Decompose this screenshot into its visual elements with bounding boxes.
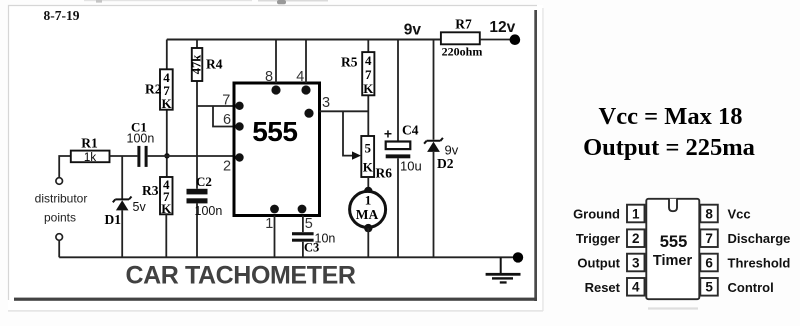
DIP pin 5 box (700, 278, 718, 296)
wire: D1 column (121, 156, 123, 257)
node 12v supply (510, 34, 521, 45)
pad pin 2 (235, 153, 243, 161)
svg-text:Output = 225ma: Output = 225ma (583, 134, 755, 161)
cropped text remnants at very top (84, 0, 328, 4)
wire: pin 6 jog (213, 106, 234, 127)
svg-text:7: 7 (222, 93, 230, 109)
panel frame dark bottom edge (14, 298, 537, 301)
pad pin 5 (298, 205, 307, 214)
svg-text:7: 7 (365, 67, 372, 82)
svg-text:K: K (363, 81, 374, 96)
pad pin 8 (271, 85, 280, 94)
node ground rail end (513, 252, 523, 262)
ground symbol (486, 257, 521, 283)
panel frame dark right edge (534, 10, 537, 301)
pad pin 3 (304, 109, 313, 118)
svg-text:K: K (161, 201, 172, 216)
svg-text:8: 8 (265, 69, 273, 85)
node meter bottom (364, 224, 372, 232)
DIP pin 2 box (627, 229, 645, 247)
svg-text:points: points (44, 211, 76, 225)
svg-text:Output: Output (577, 256, 620, 271)
capacitor C2 (187, 189, 208, 204)
DIP pin 8 box (700, 205, 718, 223)
panel frame light edges (9, 6, 538, 301)
svg-text:MA: MA (356, 207, 379, 222)
svg-text:R4: R4 (206, 57, 223, 72)
wire: pin 1 to ground rail (274, 216, 276, 258)
wire: R2 column from rail (166, 40, 168, 178)
svg-text:Discharge: Discharge (728, 231, 791, 246)
wire: R5 column (367, 40, 369, 137)
resistor R6 (361, 136, 374, 177)
op: IC U1 555 chip body (234, 83, 320, 216)
svg-text:7: 7 (705, 231, 713, 246)
wire: C4 column (397, 40, 399, 258)
DIP pin 4 box (627, 278, 645, 296)
svg-text:5v: 5v (133, 200, 147, 214)
resistor R1 (71, 151, 110, 164)
resistor R3 (160, 177, 173, 216)
svg-text:Timer: Timer (653, 253, 693, 269)
meter M1 1mA (350, 191, 386, 227)
svg-text:R5: R5 (341, 55, 358, 70)
resistor R4 (190, 48, 204, 81)
DIP pin 3 box (627, 254, 645, 272)
panel outer soft shadow lines (8, 310, 543, 311)
svg-text:K: K (161, 96, 172, 111)
wire: R3 to ground rail (165, 214, 167, 257)
diode D2 zener (424, 138, 443, 152)
svg-text:D1: D1 (105, 212, 122, 227)
resistor R2 (160, 69, 173, 111)
svg-text:8: 8 (705, 206, 713, 221)
svg-text:Vcc = Max 18: Vcc = Max 18 (599, 103, 743, 130)
wire: R1 to C1 (110, 155, 138, 157)
resistor R5 (362, 52, 374, 96)
svg-text:Reset: Reset (585, 280, 621, 295)
svg-text:C3: C3 (304, 241, 319, 255)
svg-text:2: 2 (632, 231, 640, 246)
wire: wiper from pin3 (343, 111, 354, 155)
DIP notch (669, 199, 677, 211)
wire: R4 column (196, 40, 198, 258)
svg-text:R1: R1 (81, 136, 98, 151)
wire: pin 5 to C3 (302, 216, 304, 233)
pad pin 6 (235, 122, 243, 130)
svg-text:4: 4 (296, 69, 304, 85)
distributor points terminal 1 (56, 178, 63, 185)
svg-text:R2: R2 (145, 82, 162, 97)
svg-text:220ohm: 220ohm (442, 45, 483, 59)
svg-text:CAR TACHOMETER: CAR TACHOMETER (125, 262, 355, 290)
wiper arrowhead (352, 151, 361, 159)
diode D1 zener (113, 197, 132, 211)
wire: meter to ground rail (367, 228, 369, 257)
pad pin 4 (301, 85, 310, 94)
cropped artifact under DIP (648, 307, 698, 309)
DIP pin 1 box (627, 205, 645, 223)
svg-text:12v: 12v (489, 19, 515, 36)
wire: C1 to pin 2 (148, 155, 234, 157)
svg-text:5: 5 (705, 280, 713, 295)
wire: pin 8 to rail (275, 40, 277, 84)
svg-text:8-7-19: 8-7-19 (44, 8, 80, 23)
svg-text:4: 4 (365, 53, 372, 68)
svg-text:10u: 10u (400, 159, 422, 174)
svg-text:3: 3 (322, 95, 330, 111)
svg-text:+: + (384, 126, 392, 142)
svg-text:5: 5 (365, 141, 372, 156)
svg-text:100n: 100n (127, 132, 155, 146)
capacitor C3 (292, 232, 314, 242)
wire: ground rail (59, 256, 514, 258)
svg-text:2: 2 (223, 159, 231, 175)
wire: terminal1 up to R1 (59, 156, 71, 178)
node meter top (364, 187, 372, 195)
schematic panel background (8, 5, 543, 311)
svg-text:Vcc: Vcc (728, 207, 751, 222)
svg-text:5: 5 (305, 216, 313, 232)
svg-text:Control: Control (728, 280, 774, 295)
svg-text:K: K (363, 160, 374, 175)
svg-text:Threshold: Threshold (728, 256, 791, 271)
pad pin 1 (270, 205, 279, 214)
pad pin 7 (235, 102, 243, 110)
wire: pin 3 line (320, 110, 369, 112)
svg-text:555: 555 (252, 116, 297, 147)
wire: R7 to 12v node (480, 39, 510, 41)
svg-text:C2: C2 (196, 174, 212, 189)
svg-text:R7: R7 (455, 17, 472, 32)
DIP pin 6 box (700, 254, 718, 272)
svg-text:1k: 1k (84, 152, 96, 164)
wire: pin 7 line (197, 105, 234, 107)
svg-text:6: 6 (223, 112, 231, 128)
wire: C3 to ground rail (302, 242, 304, 257)
node junction C1/R2/R3/pin2 (164, 153, 169, 158)
svg-text:100n: 100n (195, 204, 223, 218)
svg-text:6: 6 (705, 255, 713, 270)
svg-text:9v: 9v (404, 22, 422, 39)
DIP package U2 555 timer body (646, 199, 699, 299)
capacitor C1 (137, 146, 147, 167)
svg-text:47k: 47k (190, 55, 204, 75)
wire: D2 column (433, 40, 435, 258)
capacitor C4 electrolytic (386, 142, 411, 159)
svg-text:555: 555 (660, 233, 688, 251)
wire: terminal2 down to ground rail (58, 240, 60, 257)
svg-text:4: 4 (632, 280, 640, 295)
svg-text:D2: D2 (437, 156, 454, 171)
wire: 9v top rail (167, 39, 441, 41)
resistor R7 (441, 32, 480, 44)
wire: R6 to meter (367, 177, 369, 191)
svg-text:1: 1 (265, 216, 273, 232)
svg-text:1: 1 (365, 193, 372, 208)
wire: pin 4 to rail (305, 40, 307, 84)
svg-text:3: 3 (632, 255, 640, 270)
svg-text:C4: C4 (402, 123, 419, 138)
svg-text:R6: R6 (376, 166, 393, 181)
svg-text:R3: R3 (142, 183, 159, 198)
distributor points terminal 2 (56, 234, 63, 241)
svg-text:distributor: distributor (35, 192, 88, 206)
svg-text:Ground: Ground (573, 207, 620, 222)
DIP pin 7 box (700, 229, 718, 247)
svg-text:1: 1 (632, 206, 640, 221)
svg-text:Trigger: Trigger (576, 231, 620, 246)
